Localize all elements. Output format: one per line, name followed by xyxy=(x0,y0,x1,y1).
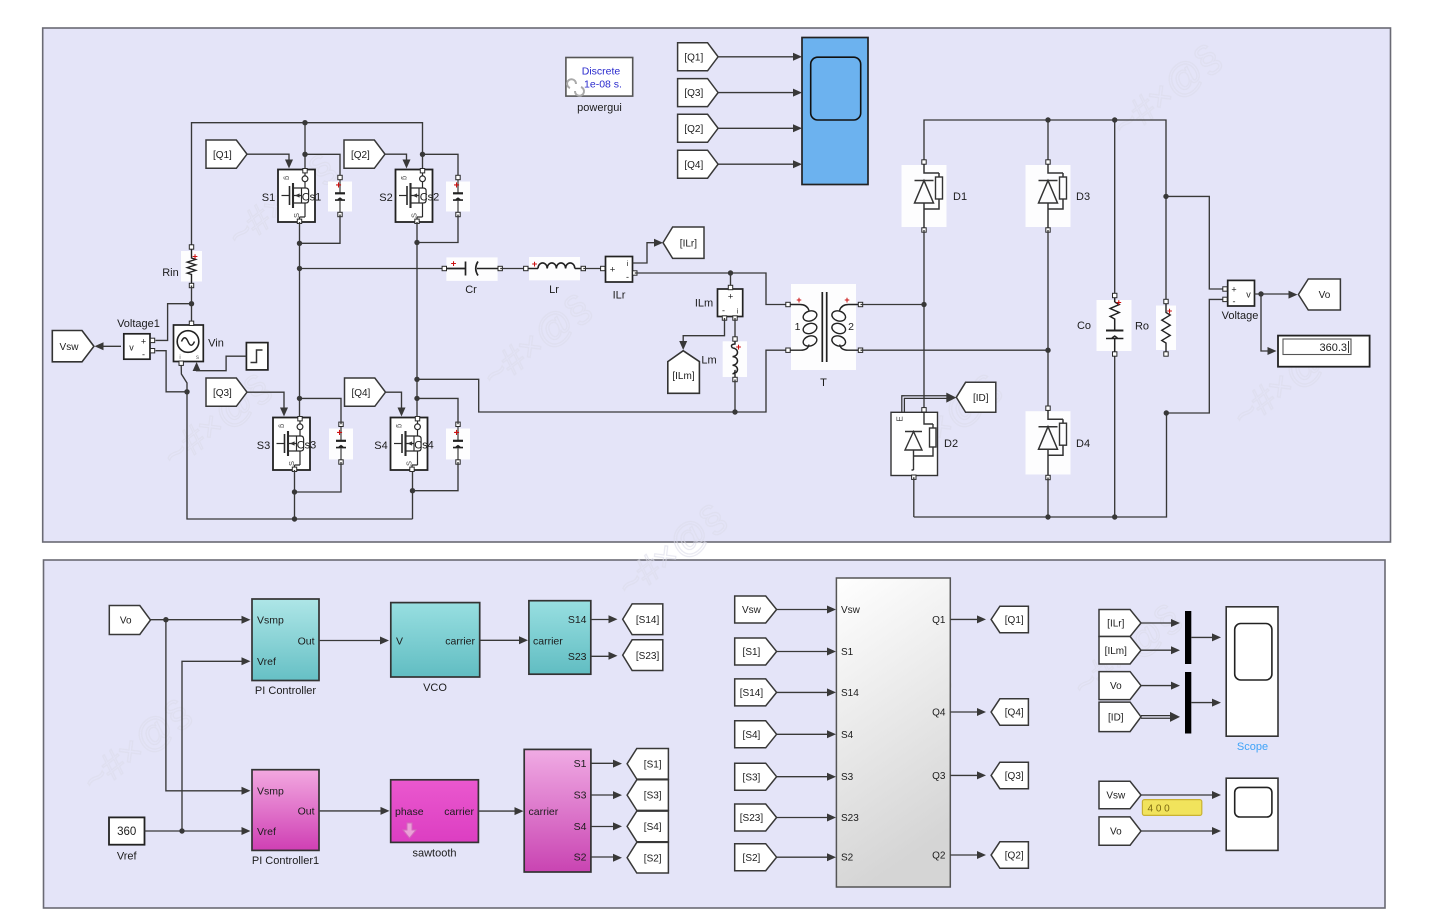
node Vin top node xyxy=(189,301,194,306)
resistor Ro xyxy=(1156,299,1176,356)
goto tag [ID] xyxy=(956,382,996,412)
svg-text:Vo: Vo xyxy=(1110,827,1122,838)
svg-text:phase: phase xyxy=(395,806,424,818)
goto tag Vo xyxy=(1298,279,1340,310)
svg-text:Cs4: Cs4 xyxy=(414,440,434,452)
svg-text:[S1]: [S1] xyxy=(644,759,662,770)
svg-text:ILr: ILr xyxy=(613,290,626,302)
wire mux1 to scope xyxy=(1191,636,1214,638)
svg-text:S: S xyxy=(410,213,419,218)
wire [S1] into subsystem xyxy=(777,651,830,653)
goto tag [S3] xyxy=(627,780,668,811)
node D3 top tap xyxy=(1045,117,1050,122)
svg-text:s: s xyxy=(196,355,199,361)
wire Q4 to scope xyxy=(718,163,793,165)
goto tag [ILr] xyxy=(663,227,704,258)
svg-text:+: + xyxy=(336,180,342,191)
wire Q1 to scope xyxy=(718,56,793,58)
svg-text:S3: S3 xyxy=(841,772,854,783)
svg-text:Vsw: Vsw xyxy=(742,605,762,616)
svg-text:Vref: Vref xyxy=(117,851,138,863)
svg-text:V: V xyxy=(396,635,403,647)
from tag [S1] (logic input) xyxy=(735,638,777,665)
wire S4 out xyxy=(591,826,616,828)
svg-text:Lr: Lr xyxy=(549,284,559,296)
bus wire ID to mux2 xyxy=(1141,716,1173,719)
svg-text:Vsw: Vsw xyxy=(60,342,80,353)
svg-text:[Q1]: [Q1] xyxy=(213,150,232,161)
wire S3 source drop xyxy=(294,470,296,519)
wire ILr output run xyxy=(635,273,788,305)
capacitor Cr (series resonant) xyxy=(442,257,502,281)
voltage measurement Voltage xyxy=(1223,280,1255,306)
from tag [Q3] (gate drive S3) xyxy=(206,378,247,406)
from tag [Q1] (scope input) xyxy=(678,43,719,71)
subsystem gate logic (large) xyxy=(836,578,950,887)
wire S3 out xyxy=(591,794,616,796)
svg-text:S4: S4 xyxy=(374,440,387,452)
node secondary bottom node xyxy=(1045,348,1050,353)
wire Voltage1 minus lead xyxy=(156,351,188,392)
svg-text:[ILr]: [ILr] xyxy=(1107,619,1124,630)
from tag Vsw (logic input) xyxy=(735,596,777,623)
from tag [Q3] (scope input) xyxy=(678,79,719,107)
capacitor Cs4 (snubber) xyxy=(446,422,470,464)
svg-text:[Q2]: [Q2] xyxy=(351,150,370,161)
wire top DC rail xyxy=(192,123,423,246)
svg-text:S14: S14 xyxy=(568,614,587,626)
svg-text:Q1: Q1 xyxy=(932,615,946,626)
wire secondary top xyxy=(861,304,925,306)
svg-text:[S3]: [S3] xyxy=(743,772,761,783)
wire Cs4 top branch xyxy=(417,398,458,424)
svg-text:Cs3: Cs3 xyxy=(297,440,317,452)
svg-text:Cr: Cr xyxy=(465,284,477,296)
wire none: faint watermark texture xyxy=(75,37,1350,802)
svg-text:Scope: Scope xyxy=(1237,741,1268,753)
wire D2 bottom drop xyxy=(913,477,915,517)
svg-text:Vo: Vo xyxy=(120,616,132,627)
wire Q1 gate wire xyxy=(247,154,289,161)
goto tag [Q2] xyxy=(991,842,1028,869)
node S3 drain-snubber junction xyxy=(297,396,302,401)
wire [S14] into subsystem xyxy=(777,691,830,693)
scope Scope1 xyxy=(1226,778,1278,850)
wire Vo to PI Vsmp xyxy=(151,619,245,621)
from tag [Q4] (scope input) xyxy=(678,150,719,178)
svg-text:[S2]: [S2] xyxy=(644,853,662,864)
wire ILm i-signal xyxy=(683,318,724,344)
wire PI1 out to sawtooth xyxy=(319,810,383,812)
wire Q2 gate wire xyxy=(385,154,407,161)
svg-text:carrier: carrier xyxy=(529,806,559,818)
svg-text:E: E xyxy=(896,416,905,421)
svg-text:S: S xyxy=(405,461,414,466)
svg-text:g: g xyxy=(401,176,408,180)
svg-text:carrier: carrier xyxy=(533,636,563,648)
svg-text:+: + xyxy=(454,428,460,439)
wire ILr to mux xyxy=(1141,622,1174,624)
svg-text:ILm: ILm xyxy=(695,298,713,310)
svg-text:-: - xyxy=(1233,297,1236,307)
wire S4 source drop xyxy=(412,470,414,519)
scope Scope xyxy=(1226,607,1278,736)
svg-text:Q3: Q3 xyxy=(932,771,946,782)
goto tag [S4] xyxy=(627,811,668,842)
from tag Vsw (scope1) xyxy=(1099,781,1141,808)
wire Q3 to scope xyxy=(718,92,793,94)
capacitor Cs3 (snubber) xyxy=(329,422,353,464)
svg-text:Rin: Rin xyxy=(162,267,179,279)
svg-text:[Q3]: [Q3] xyxy=(213,388,232,399)
svg-text:PI Controller1: PI Controller1 xyxy=(252,855,319,867)
svg-text:[S4]: [S4] xyxy=(743,730,761,741)
mux Mux1 xyxy=(1185,611,1191,664)
current measurement ILr xyxy=(601,257,637,283)
subsystem carrier comparator (S1..S4) xyxy=(524,749,591,872)
node Vo branch node xyxy=(163,617,168,622)
wire node A to Cr xyxy=(300,268,445,270)
wire Q3 gate wire xyxy=(247,392,284,409)
svg-text:[S2]: [S2] xyxy=(743,853,761,864)
wire Rin to Vin xyxy=(191,286,193,322)
wire Cs3 bottom branch xyxy=(295,462,342,492)
svg-text:D2: D2 xyxy=(944,438,958,450)
node Voltage plus tap xyxy=(1163,194,1168,199)
node Vref branch node xyxy=(179,828,184,833)
node S2 source-snubber junction xyxy=(414,240,419,245)
svg-text:[ILm]: [ILm] xyxy=(672,371,694,382)
node bridge mid node B xyxy=(414,377,419,382)
node S1 source-snubber junction xyxy=(297,241,302,246)
transistor S2 (MOSFET block) xyxy=(396,169,433,224)
wire to display xyxy=(1261,294,1269,351)
node D4 bottom tap xyxy=(1045,514,1050,519)
svg-text:S2: S2 xyxy=(574,852,587,864)
svg-text:Vsw: Vsw xyxy=(1106,791,1126,802)
node Vin return node xyxy=(184,389,189,394)
wire Vsw to scope1 xyxy=(1141,794,1215,796)
svg-text:g: g xyxy=(283,176,290,180)
svg-text:[ID]: [ID] xyxy=(973,393,989,404)
wire [S4] into subsystem xyxy=(777,733,830,735)
transistor S1 (MOSFET block) xyxy=(278,169,315,224)
powergui block xyxy=(566,58,633,97)
svg-text:Out: Out xyxy=(298,806,315,818)
wire ILr i-signal xyxy=(633,243,657,263)
subsystem carrier comparator (S14/S23) xyxy=(529,601,591,675)
svg-text:[Q4]: [Q4] xyxy=(1005,708,1024,719)
wire 360 to PI Vref xyxy=(182,661,244,831)
svg-text:-: - xyxy=(142,349,145,359)
wire Q3 output wire xyxy=(950,774,979,776)
wire ILm to Lm xyxy=(734,318,736,339)
svg-text:S1: S1 xyxy=(841,647,854,658)
svg-text:v: v xyxy=(1246,290,1251,300)
svg-text:carrier: carrier xyxy=(445,635,475,647)
svg-text:[S1]: [S1] xyxy=(743,647,761,658)
from tag [Q1] (gate drive S1) xyxy=(206,140,247,168)
svg-text:[ILr]: [ILr] xyxy=(680,238,697,249)
node Vo signal node xyxy=(1258,291,1263,296)
from tag [S3] (logic input) xyxy=(735,763,777,790)
wire branch to Cs1 top xyxy=(305,154,340,177)
svg-text:S14: S14 xyxy=(841,688,859,699)
node ILm tap node xyxy=(728,270,733,275)
subsystem PI Controller1 xyxy=(252,770,319,851)
wire to Voltage minus xyxy=(1166,299,1222,413)
goto tag [S2] xyxy=(627,842,668,873)
svg-text:S: S xyxy=(287,461,296,466)
svg-text:g: g xyxy=(278,424,285,428)
svg-text:+: + xyxy=(844,295,849,305)
wire Cr to Lr xyxy=(500,268,526,270)
svg-text:4 0 0: 4 0 0 xyxy=(1148,804,1171,815)
svg-text:1e-08 s.: 1e-08 s. xyxy=(584,79,622,91)
transistor S4 (MOSFET block) xyxy=(391,417,428,472)
svg-text:[S4]: [S4] xyxy=(644,822,662,833)
svg-text:Lm: Lm xyxy=(701,355,716,367)
wire step to Vin control xyxy=(197,356,247,371)
capacitor Co (output, series RC) xyxy=(1097,293,1132,356)
from tag [Q4] (gate drive S4) xyxy=(345,378,386,406)
from tag [ILr] (scope) xyxy=(1099,610,1141,637)
svg-text:S3: S3 xyxy=(574,790,587,802)
svg-text:Vsmp: Vsmp xyxy=(257,615,284,627)
wire S2 source chain xyxy=(416,222,418,417)
svg-text:PI Controller: PI Controller xyxy=(255,685,316,697)
svg-text:[S14]: [S14] xyxy=(636,615,660,626)
node top rail / S1 drain junction xyxy=(302,120,307,125)
svg-text:+: + xyxy=(1167,306,1173,317)
constant Vref (360) xyxy=(109,817,145,844)
diode D2 (with current measurement) xyxy=(891,408,938,480)
svg-text:carrier: carrier xyxy=(444,806,474,818)
node S1 drain-snubber junction xyxy=(302,152,307,157)
goto tag [Q3] xyxy=(991,762,1028,789)
node Co bottom tap xyxy=(1112,514,1117,519)
svg-text:+: + xyxy=(1231,285,1236,295)
svg-text:Vsmp: Vsmp xyxy=(257,786,284,798)
mux Mux2 xyxy=(1185,672,1191,734)
svg-text:S2: S2 xyxy=(379,192,392,204)
transistor S3 (MOSFET block) xyxy=(273,417,310,472)
wire Co top drop xyxy=(1114,120,1116,296)
wire Q4 gate wire xyxy=(386,392,402,409)
wire ILm to mux xyxy=(1141,649,1174,651)
from tag [S23] (logic input) xyxy=(735,804,777,831)
svg-text:D4: D4 xyxy=(1076,438,1090,450)
svg-text:+: + xyxy=(796,295,801,305)
svg-text:Vsw: Vsw xyxy=(841,605,861,616)
node S4 source-snubber junction xyxy=(410,488,415,493)
svg-text:Ro: Ro xyxy=(1135,321,1149,333)
node S4 drain-snubber junction xyxy=(414,396,419,401)
wire Q4 output wire xyxy=(950,711,979,713)
svg-text:i: i xyxy=(179,355,180,361)
wire rectifier bottom rail xyxy=(914,413,1167,517)
from tag [ID] (scope) xyxy=(1099,702,1141,732)
from tag [Q2] (gate drive S2) xyxy=(344,140,385,168)
goto tag Vsw (flipped) xyxy=(52,331,94,362)
wire Lm to return rail xyxy=(734,380,736,413)
svg-text:+: + xyxy=(141,336,146,346)
wire D1 to D2 xyxy=(923,230,925,408)
svg-text:360: 360 xyxy=(117,826,136,838)
wire S2 out xyxy=(591,856,616,858)
svg-text:+: + xyxy=(610,264,616,275)
wire Cs4 bottom branch xyxy=(413,462,459,491)
goto tag [Q1] xyxy=(991,606,1028,633)
wire to Voltage plus xyxy=(1166,196,1223,289)
node resonant node A xyxy=(297,266,302,271)
wire Q2 to scope xyxy=(718,127,793,129)
svg-text:S23: S23 xyxy=(568,651,587,663)
wire Lr to ILr xyxy=(583,268,603,270)
subsystem sawtooth xyxy=(391,780,479,843)
svg-text:S4: S4 xyxy=(841,730,854,741)
wire ILm drop xyxy=(730,273,732,287)
from tag Vo (scope1) xyxy=(1099,817,1141,845)
svg-text:Cs2: Cs2 xyxy=(420,192,440,204)
display block 360.3 xyxy=(1278,336,1370,367)
svg-text:2: 2 xyxy=(848,321,854,333)
goto tag [ILm] (rotated) xyxy=(668,351,700,394)
diode D3 xyxy=(1026,160,1071,232)
svg-text:powergui: powergui xyxy=(577,102,622,114)
svg-text:-: - xyxy=(626,272,629,282)
inductor Lr (series resonant) xyxy=(524,257,586,280)
svg-text:[Q1]: [Q1] xyxy=(1005,615,1024,626)
wire Voltage output xyxy=(1255,293,1292,295)
svg-text:[S3]: [S3] xyxy=(644,791,662,802)
svg-text:S1: S1 xyxy=(574,758,587,770)
subsystem PI Controller xyxy=(252,599,319,681)
wire S23 out xyxy=(591,655,611,657)
node S2 drain-snubber junction xyxy=(420,152,425,157)
node S3 source-snubber junction xyxy=(292,489,297,494)
svg-text:Out: Out xyxy=(298,635,315,647)
svg-text:g: g xyxy=(396,424,403,428)
svg-text:Vo: Vo xyxy=(1110,681,1122,692)
svg-text:+: + xyxy=(451,259,457,270)
svg-text:+: + xyxy=(454,180,460,191)
subsystem VCO xyxy=(391,603,480,677)
wire Cs3 top branch xyxy=(300,398,342,424)
wire D3 top drop xyxy=(1047,120,1049,162)
svg-text:v: v xyxy=(129,343,134,353)
wire secondary bottom xyxy=(861,349,1049,351)
wire node to Voltage1 plus xyxy=(156,304,192,341)
svg-text:Vo: Vo xyxy=(1319,290,1331,301)
diode D1 xyxy=(902,160,947,232)
svg-text:-: - xyxy=(722,306,725,316)
svg-text:Co: Co xyxy=(1077,320,1091,332)
scope Scope2 (blue) xyxy=(802,38,868,185)
wire Vin minus lead xyxy=(181,366,187,392)
svg-text:Voltage: Voltage xyxy=(1222,310,1259,322)
panel: control stage annotation area xyxy=(44,560,1386,908)
from tag Vo (control input) xyxy=(109,606,150,635)
svg-text:+: + xyxy=(337,428,343,439)
svg-text:[ILm]: [ILm] xyxy=(1105,646,1127,657)
wire Q2 output wire xyxy=(950,854,979,856)
wire S1 drain riser xyxy=(304,123,306,169)
inductor Lm (magnetizing) xyxy=(723,337,747,382)
svg-text:[Q2]: [Q2] xyxy=(684,124,703,135)
from tag [ILm] (scope) xyxy=(1099,637,1141,665)
step source block xyxy=(246,343,268,370)
svg-text:D3: D3 xyxy=(1076,191,1090,203)
node secondary top node xyxy=(921,302,926,307)
goto tag [S14] xyxy=(623,604,663,635)
wire Cs2 bottom branch xyxy=(417,215,458,243)
tooltip value 400 xyxy=(1142,800,1201,816)
wire D4 bottom drop xyxy=(1047,478,1049,518)
svg-text:S1: S1 xyxy=(262,192,275,204)
wire rectifier top rail xyxy=(924,120,1166,302)
diode D4 xyxy=(1026,406,1071,480)
current measurement ILm xyxy=(718,285,743,320)
goto tag [S23] xyxy=(623,640,663,671)
wire branch to Cs2 top xyxy=(423,154,459,177)
bus wire D2 measurement to [ID] xyxy=(902,396,951,413)
wire Cs1 bottom branch xyxy=(300,215,341,244)
svg-text:S2: S2 xyxy=(841,853,854,864)
svg-text:S23: S23 xyxy=(841,813,859,824)
from tag [S14] (logic input) xyxy=(735,679,777,706)
svg-text:+: + xyxy=(728,292,734,303)
svg-text:T: T xyxy=(820,377,827,389)
svg-text:Vref: Vref xyxy=(257,826,276,838)
svg-text:[ID]: [ID] xyxy=(1108,712,1124,723)
svg-text:[Q3]: [Q3] xyxy=(684,88,703,99)
wire D3 to D4 xyxy=(1047,230,1049,408)
wire mux2 to scope xyxy=(1191,702,1214,704)
svg-text:Vin: Vin xyxy=(208,338,224,350)
svg-text:Q2: Q2 xyxy=(932,851,946,862)
capacitor Cs2 (snubber) xyxy=(446,175,470,216)
svg-text:1: 1 xyxy=(795,321,801,333)
svg-text:S: S xyxy=(292,213,301,218)
node primary return Lm junction xyxy=(732,409,737,414)
wire S1 source chain xyxy=(299,222,301,417)
from tag [Q2] (scope input) xyxy=(678,114,719,142)
svg-text:Vref: Vref xyxy=(257,656,276,668)
wire VCO to carrier cmp xyxy=(480,639,522,641)
wire Vo to PI1 Vsmp xyxy=(166,620,244,791)
svg-text:S4: S4 xyxy=(574,821,587,833)
resistor Rin xyxy=(181,245,202,288)
wire primary return jog xyxy=(417,350,788,412)
svg-text:[S23]: [S23] xyxy=(636,651,660,662)
AC voltage source Vin xyxy=(174,321,204,365)
panel: power stage annotation area xyxy=(43,28,1391,542)
svg-text:sawtooth: sawtooth xyxy=(412,848,456,860)
transformer T xyxy=(786,284,863,370)
from tag [S4] (logic input) xyxy=(735,721,777,748)
goto tag [S1] xyxy=(627,749,668,780)
goto tag [Q4] xyxy=(991,699,1028,726)
svg-text:[Q4]: [Q4] xyxy=(684,160,703,171)
from tag Vo (scope) xyxy=(1099,672,1141,700)
node Voltage minus tap xyxy=(1164,410,1169,415)
wire sawtooth to carrier cmp1 xyxy=(478,810,517,812)
svg-text:[S14]: [S14] xyxy=(740,688,764,699)
svg-text:Q4: Q4 xyxy=(932,708,946,719)
wire [S23] into subsystem xyxy=(777,817,830,819)
wire Q1 output wire xyxy=(950,618,979,620)
